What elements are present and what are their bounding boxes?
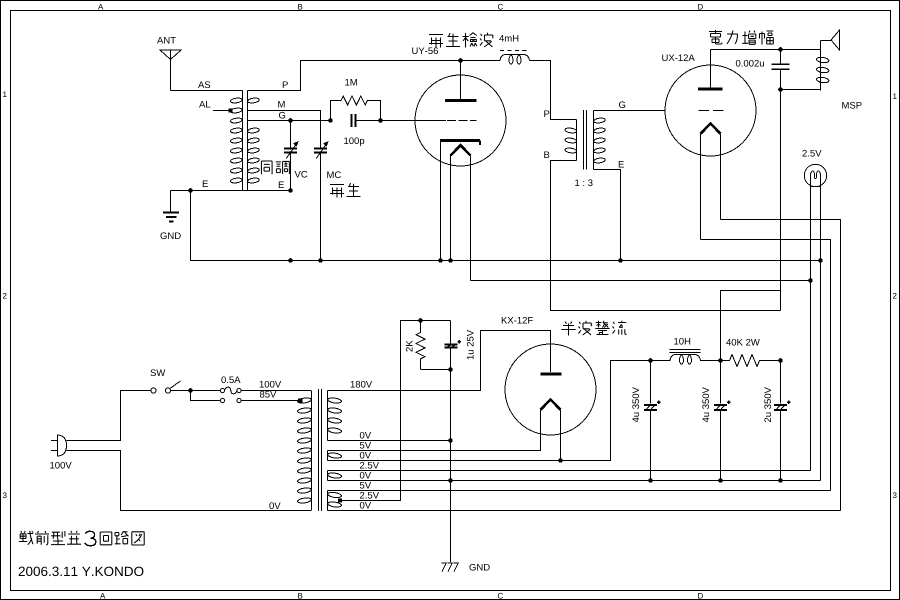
caption tuning <box>261 161 289 174</box>
wire interstage E to cathode bus <box>594 170 621 261</box>
wire lamp right lead <box>820 187 822 481</box>
wire 2.5V row a <box>328 470 811 472</box>
node 2K top <box>418 318 423 323</box>
speaker MSP <box>816 30 839 91</box>
caption power amplifier <box>709 30 773 45</box>
ground GND antenna <box>163 191 179 222</box>
tube UY-56 envelope <box>415 75 506 166</box>
wire 5V row a <box>328 410 541 451</box>
node G / VC top <box>288 118 293 123</box>
label SW <box>150 369 165 376</box>
label 4mH <box>499 35 518 42</box>
label 2.5V lamp <box>802 150 821 157</box>
resistor 2K <box>416 321 451 370</box>
tube UX-12A filament <box>701 124 721 240</box>
transformer T1 secondary <box>593 111 605 170</box>
capacitor C filter 3 2u 350V <box>774 361 790 481</box>
node 2K bottom <box>448 367 453 372</box>
label 5V row a <box>360 442 371 449</box>
node 0.002u bottom <box>778 87 783 92</box>
label 2.5V row a <box>360 462 379 469</box>
label GND antenna <box>160 232 180 239</box>
label G interstage <box>619 101 625 108</box>
tube UX-12A plate <box>698 50 723 90</box>
frame label 2 right <box>893 293 897 299</box>
node C2 to bus <box>718 478 723 483</box>
choke 4mH <box>500 51 530 65</box>
node 1u to 0V row a <box>448 438 453 443</box>
tube UY-56 grid dashes <box>447 120 477 122</box>
label 0V primary <box>269 502 280 509</box>
label VC <box>295 171 308 178</box>
tube UY-56 filament <box>451 145 471 280</box>
transformer T2 secondary windings <box>327 391 341 511</box>
label 100V plug <box>50 462 71 469</box>
label UY-56 <box>412 47 438 54</box>
wire fuse to 100V tap <box>241 390 311 392</box>
label 180V <box>351 381 372 388</box>
wire 0V row d bottom <box>328 510 841 512</box>
tube KX-12F plate <box>541 372 562 375</box>
wire P winding to top rail <box>248 61 501 91</box>
tube UY-56 plate <box>445 61 477 101</box>
switch SW <box>151 381 181 393</box>
label E coil left <box>203 180 208 187</box>
fuse 0.5A <box>220 387 241 394</box>
wire UX plate to output <box>711 49 821 51</box>
wire plug to 0V primary <box>67 451 312 511</box>
node E left <box>188 188 193 193</box>
label 1M <box>345 79 357 86</box>
frame label B bottom <box>298 593 302 599</box>
label 0.5A <box>221 376 240 383</box>
label 5V row b <box>360 482 371 489</box>
wire switch to node <box>171 390 220 392</box>
label 4u 350V cap1 rotated <box>632 387 639 422</box>
transformer T1 core <box>584 110 587 170</box>
variable capacitor VC <box>284 121 299 191</box>
label AS <box>198 81 210 88</box>
wire G net <box>248 120 447 122</box>
node 40K out <box>778 358 783 363</box>
wire 0V row b B plus takeoff <box>328 361 651 461</box>
wire 0V row c ground bus <box>328 480 821 482</box>
choke 10H <box>651 349 721 364</box>
label 2.5V row b <box>360 492 379 499</box>
label date signature <box>19 567 144 577</box>
frame label A top <box>98 4 103 10</box>
node C3 to bus <box>778 478 783 483</box>
wire interstage B to B plus rail <box>551 161 781 311</box>
label 0V row b <box>360 452 371 459</box>
node filter input <box>648 358 653 363</box>
antenna coil L1 secondary <box>247 91 259 191</box>
wire B plus to UX plate feed <box>721 291 781 361</box>
frame label 1 right <box>893 94 896 100</box>
variable capacitor MC <box>314 141 329 261</box>
wire plug to switch <box>67 391 152 441</box>
wire speaker bottom <box>781 89 821 91</box>
wire UX filament left to 5V <box>701 240 831 491</box>
label 1u 25V rotated <box>467 330 474 359</box>
node choke out <box>718 358 723 363</box>
node plate UY-56 <box>458 58 463 63</box>
label MC <box>327 171 341 178</box>
frame label C bottom <box>498 593 503 599</box>
tube KX-12F filament <box>541 400 561 461</box>
label 100V tap <box>260 381 281 388</box>
frame label D top <box>698 4 703 10</box>
transformer T2 core <box>319 389 322 511</box>
node grid right <box>378 118 383 123</box>
node grid left <box>328 118 333 123</box>
antenna ANT <box>160 50 181 91</box>
tube UX-12A grid dashes <box>699 110 727 112</box>
ground GND chassis <box>442 563 459 572</box>
label P coil <box>283 81 288 88</box>
pilot lamp 2.5V <box>804 164 826 186</box>
wire choke to interstage P <box>530 61 577 120</box>
label 2K rotated <box>406 340 413 351</box>
label GND chassis <box>469 564 489 571</box>
wire interstage G to UX grid <box>594 110 665 112</box>
capacitor C filter 1 4u 350V <box>644 361 660 481</box>
frame label C top <box>498 4 503 10</box>
node KX filament to B plus <box>558 458 563 463</box>
label 4u 350V cap2 rotated <box>702 387 709 422</box>
label 1 : 3 <box>575 179 592 186</box>
label AL <box>199 101 210 108</box>
tube UY-56 cathode <box>440 141 480 261</box>
frame label 2 left <box>3 293 7 299</box>
wire cathode bus <box>191 191 821 261</box>
label M coil <box>278 101 284 108</box>
resistor 40K 2W <box>721 355 781 367</box>
label 0V row a <box>360 432 371 439</box>
frame label 3 left <box>3 492 7 498</box>
tap 2.5V square <box>338 499 341 502</box>
frame label D bottom <box>698 593 703 599</box>
resistor 1M <box>331 96 381 121</box>
AC plug 100V <box>51 435 67 456</box>
node filament bus to lamp <box>808 278 813 283</box>
node cathode bus junctions <box>288 258 823 263</box>
tube UX-12A envelope <box>665 65 756 156</box>
label E coil right <box>279 181 284 188</box>
label MSP <box>842 102 861 109</box>
wire 5V row b <box>328 490 831 492</box>
label 100p <box>344 137 364 146</box>
transformer T1 interstage primary <box>565 120 577 161</box>
node C1 to bus <box>648 478 653 483</box>
capacitor 0.002u <box>772 50 790 311</box>
wire 85V to tap <box>241 399 302 402</box>
label KX-12F <box>502 317 533 324</box>
wire M to MC <box>248 111 321 148</box>
label E interstage <box>619 161 624 168</box>
label ANT <box>157 37 176 44</box>
antenna coil L1 primary <box>230 91 242 191</box>
transformer T2 primary winding <box>297 391 311 511</box>
contacts 85V <box>220 398 241 402</box>
caption half wave rectifier <box>561 321 626 336</box>
label P interstage <box>544 110 549 117</box>
wire UX filament right to 0V <box>721 220 841 511</box>
frame label B top <box>298 4 302 10</box>
AL tap wire <box>213 109 232 112</box>
capacitor 1u 25V <box>445 321 461 563</box>
label B interstage <box>544 151 549 158</box>
frame label 1 left <box>3 92 6 98</box>
capacitor C filter 2 4u 350V <box>714 361 730 481</box>
caption regenerative detector <box>429 33 493 48</box>
label 85V tap <box>260 391 276 398</box>
wire 0V row a <box>328 440 451 442</box>
label 40K 2W <box>726 339 760 346</box>
frame label 3 right <box>893 492 897 498</box>
label 2u 350V cap3 rotated <box>764 387 771 422</box>
node 0.002u top <box>778 47 783 52</box>
label 0V row c <box>360 472 371 479</box>
label G coil <box>279 112 285 119</box>
wire E row <box>171 190 291 192</box>
node 1u to 0V row c <box>448 478 453 483</box>
caption regeneration <box>330 183 361 198</box>
label 10H <box>674 338 690 345</box>
node selector <box>188 388 193 393</box>
wire filament return bus <box>471 280 811 282</box>
title prewar type 3 tube circuit <box>19 531 144 546</box>
wire AS antenna to coil <box>171 90 243 92</box>
label 0V row d <box>360 502 371 509</box>
wire 180V row <box>328 331 551 391</box>
node E right VC bottom <box>288 188 293 193</box>
label UX-12A <box>662 54 695 61</box>
capacitor 100p <box>352 114 356 127</box>
wire lamp left lead <box>810 187 812 471</box>
label 0u <box>736 60 764 67</box>
wire 2.5V row b bias takeoff <box>340 321 451 501</box>
frame label A bottom <box>100 593 105 599</box>
tube KX-12F envelope <box>505 344 596 435</box>
wire 85V branch <box>191 391 221 401</box>
